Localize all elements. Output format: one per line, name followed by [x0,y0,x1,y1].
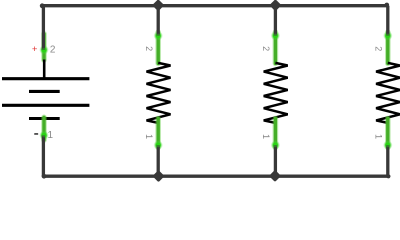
wire from top rail to R1 pin 2 [157,6,160,36]
junction node top at R1 [152,0,164,11]
resistor R3 pin 2 terminal dot [383,31,392,40]
battery - label [34,133,38,135]
resistor R3 pin 2 leg (green) [385,32,391,63]
resistor R1 zigzag body [147,63,171,123]
wire top rail [42,4,388,7]
resistor R1 pin 1 terminal dot [154,140,163,149]
svg-text:1: 1 [374,134,384,139]
battery pin 2 leg (top, green) [41,34,47,60]
wire from battery pin 1 to bottom rail [42,135,45,176]
resistor R1 pin 1 leg (green) [155,119,161,148]
svg-text:1: 1 [48,130,54,141]
wire from top rail to battery pin 2 [42,6,45,50]
wire from R1 pin 1 to bottom rail [157,145,160,176]
node top-left corner [40,3,45,8]
resistor R1 pin 1 terminal dot tint [156,143,160,147]
resistor R3 pin 1 terminal dot tint [386,143,390,147]
resistor R2 pin 2 terminal dot tint [273,34,277,38]
node bottom-right corner [386,174,390,178]
resistor R2 pin 1 terminal dot [271,140,280,149]
wire bottom rail [43,175,388,178]
resistor R2 zigzag body [264,63,288,123]
resistor R2 pin 1 terminal dot tint [273,143,277,147]
battery pin 2 terminal dot [39,45,48,54]
battery pin 1 leg (bottom, green) [41,117,47,140]
wire from R2 pin 1 to bottom rail [274,145,277,176]
resistor R1 pin 2 terminal dot [154,31,163,40]
wire from top rail to R3 pin 2 [386,6,389,36]
wire from top rail to R2 pin 2 [274,6,277,36]
battery pin 1 terminal dot [39,131,48,140]
node bottom-left corner [42,174,47,179]
svg-text:2: 2 [374,46,384,51]
battery plate 4 (short, -) [29,117,60,120]
junction node bottom at R1 [152,170,164,182]
svg-text:2: 2 [50,44,56,55]
battery top lead stub [43,60,46,79]
resistor R2 pin 1 leg (green) [273,119,279,148]
junction node top at R2 [269,0,281,11]
battery pin 2 terminal dot tint [42,48,46,52]
svg-text:+: + [32,44,38,55]
svg-text:2: 2 [261,46,271,51]
battery pin 1 terminal dot tint [42,133,46,137]
resistor R3 pin 1 leg (green) [385,119,391,148]
resistor R2 pin 2 leg (green) [273,32,279,63]
resistor R3 pin 1 terminal dot [383,140,392,149]
battery plate 3 (long) [2,104,89,107]
battery plate 1 (long, +) [2,77,89,80]
resistor R1 pin 2 terminal dot tint [156,34,160,38]
svg-text:2: 2 [144,46,154,51]
junction node bottom at R2 [269,170,281,182]
svg-text:1: 1 [261,134,271,139]
wire from R3 pin 1 to bottom rail [386,145,389,176]
resistor R2 pin 2 terminal dot [271,31,280,40]
resistor R3 pin 2 terminal dot tint [386,34,390,38]
resistor R3 zigzag body [376,63,400,123]
svg-text:1: 1 [144,134,154,139]
node top-right corner [385,3,390,8]
resistor R1 pin 2 leg (green) [155,32,161,63]
battery plate 2 (short) [29,90,60,93]
